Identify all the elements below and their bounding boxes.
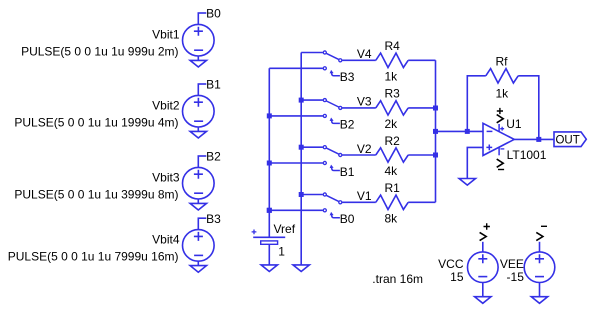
junction opamp input row (433, 129, 438, 134)
net label hook B1 (332, 167, 340, 170)
ground under Vbit2 (190, 131, 206, 138)
ground under VCC (475, 297, 491, 304)
svg-text:B3: B3 (206, 212, 221, 226)
svg-text:Vbit4: Vbit4 (152, 233, 180, 247)
svg-text:.tran 16m: .tran 16m (372, 272, 423, 286)
junction R2 summing (433, 153, 438, 158)
svg-text:B3: B3 (340, 70, 355, 84)
svg-text:PULSE(5 0 0 1u 1u 7999u 16m): PULSE(5 0 0 1u 1u 7999u 16m) (8, 250, 179, 264)
svg-text:LT1001: LT1001 (507, 148, 547, 162)
net flag OUT (554, 132, 586, 147)
svg-text:U1: U1 (506, 117, 522, 131)
switch S1 input contact (323, 193, 326, 196)
svg-text:V4: V4 (357, 47, 372, 61)
battery Vref top plate (253, 236, 285, 238)
net label elbow B3 (198, 217, 207, 219)
ground under Vref (261, 265, 277, 272)
wire switch S3 output to R3 (342, 107, 376, 109)
junction feedback tap (465, 129, 470, 134)
svg-text:1: 1 (278, 244, 285, 258)
svg-text:Rf: Rf (496, 55, 509, 69)
net label elbow B1 (198, 83, 207, 85)
switch S4 blade (326, 53, 338, 59)
net flag V- above VEE (536, 232, 543, 240)
junction left bus row B1 (267, 161, 272, 166)
ground at opamp noninverting input (459, 179, 475, 186)
wire summing to opamp inverting input (436, 130, 484, 132)
wire opamp output (514, 138, 554, 140)
ground under Vbit3 (190, 203, 206, 210)
svg-text:Vbit1: Vbit1 (152, 27, 180, 41)
switch S1 blade (326, 195, 338, 201)
wire R1 to summing node (408, 201, 435, 203)
ground under VEE (531, 297, 547, 304)
op-amp U1 noninverting mark (486, 145, 492, 151)
switch S3 control contact (323, 114, 326, 117)
wire bus to switch S3 input (301, 99, 323, 101)
battery Vref bottom plate (261, 241, 278, 244)
wire bus to switch S3 control (269, 115, 323, 117)
wire Vbit3 bottom stub (197, 199, 199, 203)
voltage source VEE (524, 252, 555, 283)
resistor R2 (376, 148, 408, 162)
wire feedback right (518, 76, 539, 140)
svg-text:Vbit2: Vbit2 (152, 98, 180, 112)
switch S3 input contact (323, 99, 326, 102)
svg-text:8k: 8k (385, 211, 399, 225)
wire Vbit4 top stub (197, 218, 199, 230)
svg-text:VCC: VCC (438, 257, 464, 271)
net label hook B0 (332, 215, 340, 218)
svg-text:1k: 1k (496, 86, 510, 100)
svg-text:B1: B1 (206, 78, 221, 92)
wire right bus (ground bus) (300, 53, 302, 265)
switch S4 control contact (323, 67, 326, 70)
junction left bus to Vref (267, 208, 272, 213)
voltage source Vbit1 (183, 24, 215, 56)
svg-text:R2: R2 (385, 134, 401, 148)
switch S2 control contact (323, 161, 326, 164)
svg-text:2k: 2k (385, 117, 399, 131)
svg-text:1k: 1k (385, 69, 399, 83)
junction left bus row B2 (267, 113, 272, 118)
wire switch S2 output to R2 (342, 154, 376, 156)
wire switch S4 output to R4 (342, 59, 376, 61)
svg-text:PULSE(5 0 0 1u 1u 999u 2m): PULSE(5 0 0 1u 1u 999u 2m) (21, 45, 178, 59)
wire bus to switch S2 input (301, 146, 323, 148)
junction right bus row V2 (299, 145, 304, 150)
svg-text:PULSE(5 0 0 1u 1u 1999u 4m): PULSE(5 0 0 1u 1u 1999u 4m) (14, 116, 178, 130)
voltage source Vbit2 (183, 95, 215, 127)
net label hook B3 (332, 73, 340, 76)
svg-text:Vref: Vref (274, 222, 296, 236)
resistor R4 (376, 53, 408, 67)
svg-text:B0: B0 (340, 212, 355, 226)
wire VCC top stub (482, 242, 484, 252)
wire feedback left vertical (467, 76, 486, 132)
op-amp U1 V+ power stub (498, 124, 500, 132)
svg-text:R4: R4 (385, 39, 401, 53)
junction output feedback (536, 137, 541, 142)
wire bus to switch S1 control (269, 209, 323, 211)
svg-text:VEE: VEE (500, 257, 524, 271)
net flag V+ above VCC (480, 232, 487, 240)
switch S2 input contact (323, 146, 326, 149)
wire summing node vertical (435, 60, 437, 202)
svg-text:OUT: OUT (555, 134, 579, 146)
wire VEE top stub (539, 242, 541, 252)
voltage source VCC (468, 252, 499, 283)
svg-text:B0: B0 (206, 7, 221, 21)
svg-text:B2: B2 (340, 118, 355, 132)
wire Vref to ground (268, 244, 270, 265)
svg-text:R1: R1 (385, 181, 401, 195)
resistor R3 (376, 101, 408, 115)
voltage source Vbit4 (183, 230, 215, 262)
switch S2 output contact (339, 153, 342, 156)
wire Vbit2 top stub (197, 84, 199, 96)
switch S1 output contact (339, 201, 342, 204)
switch S3 blade (326, 101, 338, 107)
op-amp U1 V+ tiny plus (500, 127, 504, 131)
junction left bus row B0 (267, 208, 272, 213)
wire VCC bottom stub (482, 283, 484, 297)
ground under Vbit4 (190, 266, 206, 273)
wire Vbit4 bottom stub (197, 261, 199, 265)
resistor R1 (376, 195, 408, 209)
svg-text:V1: V1 (357, 189, 372, 203)
battery Vref plus mark (252, 230, 257, 235)
svg-text:PULSE(5 0 0 1u 1u 3999u 8m): PULSE(5 0 0 1u 1u 3999u 8m) (14, 188, 178, 202)
junction right bus row V1 (299, 192, 304, 197)
ground at right bus bottom (293, 265, 309, 272)
wire R2 to summing node (408, 154, 435, 156)
op-amp U1 V- power stub (498, 147, 500, 155)
net label elbow B2 (198, 155, 207, 157)
junction right bus row V3 (299, 98, 304, 103)
wire R3 to summing node (408, 107, 435, 109)
wire bus to switch S2 control (269, 162, 323, 164)
wire R4 to summing node (408, 59, 435, 61)
svg-text:15: 15 (450, 270, 464, 284)
switch S4 output contact (339, 59, 342, 62)
switch S2 blade (326, 148, 338, 154)
wire left bus (Vref bus) (268, 68, 270, 237)
op-amp U1 V- tiny minus (500, 148, 504, 150)
wire Vbit1 bottom stub (197, 56, 199, 60)
wire opamp noninverting input (467, 147, 483, 178)
resistor Rf (486, 69, 518, 83)
pin V+ label on U1 (497, 115, 504, 123)
wire Vbit3 top stub (197, 156, 199, 168)
switch S3 output contact (339, 106, 342, 109)
net label elbow B0 (198, 12, 207, 14)
wire switch S1 output to R1 (342, 201, 376, 203)
junction R3 summing (433, 106, 438, 111)
svg-text:-15: -15 (507, 270, 525, 284)
svg-text:V3: V3 (357, 95, 372, 109)
net label hook B2 (332, 120, 340, 123)
ground under Vbit1 (190, 60, 206, 67)
voltage source Vbit3 (183, 167, 215, 199)
svg-text:V2: V2 (357, 142, 372, 156)
wire Vbit2 bottom stub (197, 127, 199, 131)
wire bus to switch S4 control (269, 67, 323, 69)
svg-text:B2: B2 (206, 150, 221, 164)
switch S1 control contact (323, 209, 326, 212)
op-amp U1 triangle (483, 123, 514, 155)
wire VEE bottom stub (539, 283, 541, 297)
svg-text:Vbit3: Vbit3 (152, 170, 180, 184)
pin V- label on U1 (497, 159, 504, 167)
svg-text:R3: R3 (385, 87, 401, 101)
op-amp U1 inverting mark (487, 130, 493, 132)
svg-text:B1: B1 (340, 165, 355, 179)
svg-text:4k: 4k (385, 164, 399, 178)
switch S4 input contact (323, 51, 326, 54)
wire bus to switch S4 input (301, 52, 323, 54)
wire bus to switch S1 input (301, 194, 323, 196)
wire Vbit1 top stub (197, 13, 199, 25)
